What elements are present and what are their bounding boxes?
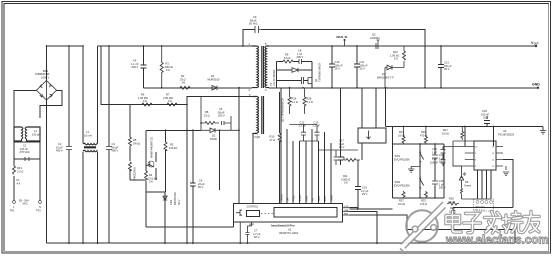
LED D6 xyxy=(453,166,492,199)
wire bias x=219.5 xyxy=(219,130,221,190)
svg-text:630 V: 630 V xyxy=(132,65,139,69)
svg-text:MURS160: MURS160 xyxy=(208,77,221,81)
svg-text:39 V: 39 V xyxy=(177,199,181,205)
svg-text:10 kΩ: 10 kΩ xyxy=(442,131,449,135)
secondary pins cluster xyxy=(281,88,331,204)
svg-text:50 V: 50 V xyxy=(254,235,260,239)
wire: C9 bypass rail y=29.5 xyxy=(243,30,425,88)
svg-text:470 Ω: 470 Ω xyxy=(420,202,427,206)
InnoSwitch3-Pro U1 xyxy=(234,203,343,222)
svg-text:FB: FB xyxy=(312,198,315,201)
capacitor C3 xyxy=(106,147,112,150)
svg-text:EVQ-PE105K: EVQ-PE105K xyxy=(394,183,410,187)
GPIO dashed box xyxy=(474,199,494,211)
V-pin sense network xyxy=(130,105,234,228)
svg-text:16 V: 16 V xyxy=(339,145,345,149)
svg-text:N: N xyxy=(39,205,41,209)
GND terminal xyxy=(537,87,539,89)
cap C16 xyxy=(355,160,361,209)
svg-text:100 V: 100 V xyxy=(439,186,446,190)
svg-text:SR: SR xyxy=(287,197,290,201)
wire bias bottom to IC xyxy=(239,88,253,204)
svg-text:2.2 µF: 2.2 µF xyxy=(299,124,307,128)
wire: secondary top rail to Vout xyxy=(269,45,536,47)
resistor R7 xyxy=(167,103,177,106)
SW1 xyxy=(420,150,424,164)
svg-text:16 V: 16 V xyxy=(483,116,489,120)
wire: secondary GND rail xyxy=(269,87,538,89)
zener VR3 xyxy=(164,192,166,243)
wire: vertical bus x=109 C3 xyxy=(108,46,110,243)
svg-text:SFB: SFB xyxy=(318,196,321,201)
fuse F1 wire xyxy=(14,159,40,201)
svg-text:GPIO Pins: GPIO Pins xyxy=(475,207,486,209)
zi xyxy=(464,214,481,233)
output filter row xyxy=(319,150,359,165)
capacitor C9 xyxy=(251,26,263,33)
svg-text:BZX55C39: BZX55C39 xyxy=(173,192,177,205)
rotated pin labels xyxy=(281,194,334,201)
wire: clamp rail y=87.8 xyxy=(144,87,253,89)
wire C across xyxy=(350,215,515,243)
resistor RF1 xyxy=(13,166,16,175)
svg-text:SGND: SGND xyxy=(281,194,284,201)
transistor Q4 xyxy=(148,161,154,167)
capacitor C4 xyxy=(141,46,147,88)
capacitor C2 xyxy=(66,147,72,150)
zener VR1 xyxy=(129,162,132,171)
chinese glyphs xyxy=(446,212,539,234)
svg-text:5.1 Ω: 5.1 Ω xyxy=(292,100,298,104)
resistor R1 xyxy=(160,46,163,88)
shao xyxy=(503,212,523,233)
svg-text:DATA: DATA xyxy=(331,195,334,201)
svg-text:D2: D2 xyxy=(212,134,216,138)
svg-text:VL713-MU/8A: VL713-MU/8A xyxy=(272,69,276,86)
R19 resistor xyxy=(453,127,474,167)
svg-text:470 Ω: 470 Ω xyxy=(420,133,427,137)
wire: bottom primary return rail xyxy=(47,242,515,244)
svg-text:FWD: FWD xyxy=(293,195,296,201)
svg-text:BAV20WS-7-F: BAV20WS-7-F xyxy=(377,75,394,79)
svg-text:16 V: 16 V xyxy=(335,67,341,71)
PIC16F18325 U3 xyxy=(474,141,496,170)
svg-text:PIC16F18325: PIC16F18325 xyxy=(498,132,515,136)
inductor L1 xyxy=(83,144,98,152)
caps C10 C11 xyxy=(329,46,360,88)
svg-text:22 Ω: 22 Ω xyxy=(204,113,210,117)
diode D4 + R12 xyxy=(385,46,404,88)
logo plug circle xyxy=(400,202,446,252)
svg-text:35 V: 35 V xyxy=(444,67,450,71)
cap C15l xyxy=(338,88,344,165)
svg-text:50 VAC: 50 VAC xyxy=(249,22,258,26)
feedback block xyxy=(358,128,386,143)
R22 xyxy=(424,127,427,145)
svg-text:MMBT4403WT1G: MMBT4403WT1G xyxy=(150,137,154,158)
svg-text:10 mH: 10 mH xyxy=(84,133,92,137)
R27 R23 bottom xyxy=(402,191,427,198)
svg-text:2.3 Ω: 2.3 Ω xyxy=(17,170,23,174)
transformer T1 xyxy=(252,46,269,135)
svg-text:50 V: 50 V xyxy=(198,185,204,189)
svg-text:GND: GND xyxy=(532,82,540,86)
watermark xyxy=(400,202,548,252)
svg-text:VCE: VCE xyxy=(344,206,349,208)
wire B down to rail xyxy=(350,212,378,244)
BPP pin + C7 xyxy=(246,222,252,243)
svg-text:Green: Green xyxy=(464,183,472,187)
resistor R3 xyxy=(165,130,167,192)
snubber R8 C5 D2 xyxy=(201,97,231,126)
TP1 terminal xyxy=(13,201,16,204)
C12 C13 caps xyxy=(300,125,320,142)
svg-text:1000 V: 1000 V xyxy=(41,75,49,79)
diode D1 xyxy=(212,86,217,91)
source pin down xyxy=(239,222,241,243)
svg-text:GND: GND xyxy=(306,195,309,201)
svg-text:24 kΩ: 24 kΩ xyxy=(133,141,140,145)
SW2 xyxy=(420,176,424,190)
svg-text:47 Ω: 47 Ω xyxy=(270,138,276,142)
VBUS_IN xyxy=(344,39,346,41)
wire: vertical bus x=83 xyxy=(82,46,84,243)
svg-text:VR3: VR3 xyxy=(169,199,173,205)
resistor R2 xyxy=(180,86,190,89)
svg-text:FQR: FQR xyxy=(255,135,261,139)
svg-text:400 V: 400 V xyxy=(112,149,119,153)
bias winding feed y=96.5 xyxy=(187,97,253,105)
sync rectifier Q1 xyxy=(276,62,312,88)
dian xyxy=(446,212,461,233)
svg-text:EVQ-PE105K: EVQ-PE105K xyxy=(394,157,410,161)
svg-text:100 µH: 100 µH xyxy=(32,133,41,137)
svg-text:Q2 TSP66066MACR: Q2 TSP66066MACR xyxy=(281,98,285,122)
svg-text:Pin 7, 5, 1: Pin 7, 5, 1 xyxy=(475,210,486,212)
C14 C15 xyxy=(432,155,438,186)
wire: vertical bus x=69 C2 xyxy=(68,46,70,243)
wire: vertical bus x=46.5 xyxy=(46,46,48,243)
svg-text:VAC: VAC xyxy=(23,202,28,206)
Vout terminal xyxy=(535,45,537,47)
resistor R10 xyxy=(279,92,281,203)
svg-text:100 nF: 100 nF xyxy=(430,160,438,164)
fa xyxy=(485,212,501,234)
right stub wires from U1 xyxy=(343,208,350,215)
you xyxy=(524,212,540,233)
svg-text:25 V: 25 V xyxy=(362,192,368,196)
svg-text:1 µF: 1 µF xyxy=(432,150,438,154)
mid ground xyxy=(408,164,420,172)
wire A to switch block xyxy=(350,208,393,209)
svg-text:VBUS_IN: VBUS_IN xyxy=(336,35,347,39)
switch block rails xyxy=(386,88,543,131)
svg-text:2.2 µF: 2.2 µF xyxy=(313,124,321,128)
svg-text:RS1D: RS1D xyxy=(210,137,217,141)
svg-text:10 kΩ: 10 kΩ xyxy=(398,133,405,137)
svg-text:RIA: RIA xyxy=(344,213,348,216)
svg-text:5.6 Ω: 5.6 Ω xyxy=(284,56,290,60)
wire: vertical bus x=97.5 xyxy=(97,46,99,243)
svg-text:CONTROL: CONTROL xyxy=(247,206,259,209)
svg-text:400 V: 400 V xyxy=(56,149,63,153)
svg-text:100 kΩ: 100 kΩ xyxy=(169,146,177,150)
svg-text:VCC: VCC xyxy=(324,196,327,201)
svg-text:VOUT: VOUT xyxy=(299,194,302,201)
wire: sense tap x=101 xyxy=(101,46,187,105)
R29 xyxy=(447,202,459,205)
svg-text:200 V: 200 V xyxy=(218,114,225,118)
R21 xyxy=(402,127,405,145)
C18 on mid rail xyxy=(465,116,494,146)
svg-text:InnoSwitch3-Pro: InnoSwitch3-Pro xyxy=(271,224,295,228)
R24 xyxy=(452,208,455,230)
resistor R5 xyxy=(129,137,132,146)
gnd at PIC right xyxy=(503,166,509,176)
svg-text:4 A: 4 A xyxy=(17,182,21,186)
svg-text:P6KE200A: P6KE200A xyxy=(133,167,137,180)
svg-text:www.elecfans.com: www.elecfans.com xyxy=(445,235,548,247)
gnd top right xyxy=(540,127,546,135)
wire: top primary rail y=46 xyxy=(47,45,253,47)
cap C13out xyxy=(438,46,444,88)
svg-text:200 V: 200 V xyxy=(297,55,304,59)
current sense R11 xyxy=(341,157,361,162)
resistor R6 xyxy=(142,103,152,106)
svg-text:16 V: 16 V xyxy=(360,67,366,71)
C19 C20 caps left of PIC xyxy=(441,147,466,167)
choke L2 xyxy=(14,127,40,142)
svg-text:VBA: VBA xyxy=(344,209,349,212)
svg-text:AO4094: AO4094 xyxy=(370,36,380,40)
transistor Q3 xyxy=(372,40,382,49)
svg-text:RF1: RF1 xyxy=(17,166,22,170)
svg-text:INN3377C-H301: INN3377C-H301 xyxy=(279,231,299,235)
capacitor C6 xyxy=(187,97,196,244)
svg-text:TP2: TP2 xyxy=(36,209,41,213)
svg-text:U1: U1 xyxy=(288,228,292,232)
svg-text:10 kΩ: 10 kΩ xyxy=(398,202,405,206)
capacitor C1 box xyxy=(14,142,40,159)
svg-text:5.1 Ω: 5.1 Ω xyxy=(307,100,313,104)
svg-text:Q1: Q1 xyxy=(314,78,318,82)
svg-text:TSP6066 MACR: TSP6066 MACR xyxy=(318,63,322,82)
R26 R28 resistors xyxy=(288,88,317,125)
resistor R4 xyxy=(145,171,148,180)
svg-text:OUT: OUT xyxy=(534,44,539,46)
bridge BR1 xyxy=(14,81,62,128)
svg-text:275 VAC: 275 VAC xyxy=(20,150,30,154)
svg-text:TP1: TP1 xyxy=(10,209,15,213)
TP2 terminal xyxy=(39,201,42,204)
svg-text:BPP: BPP xyxy=(249,223,254,227)
